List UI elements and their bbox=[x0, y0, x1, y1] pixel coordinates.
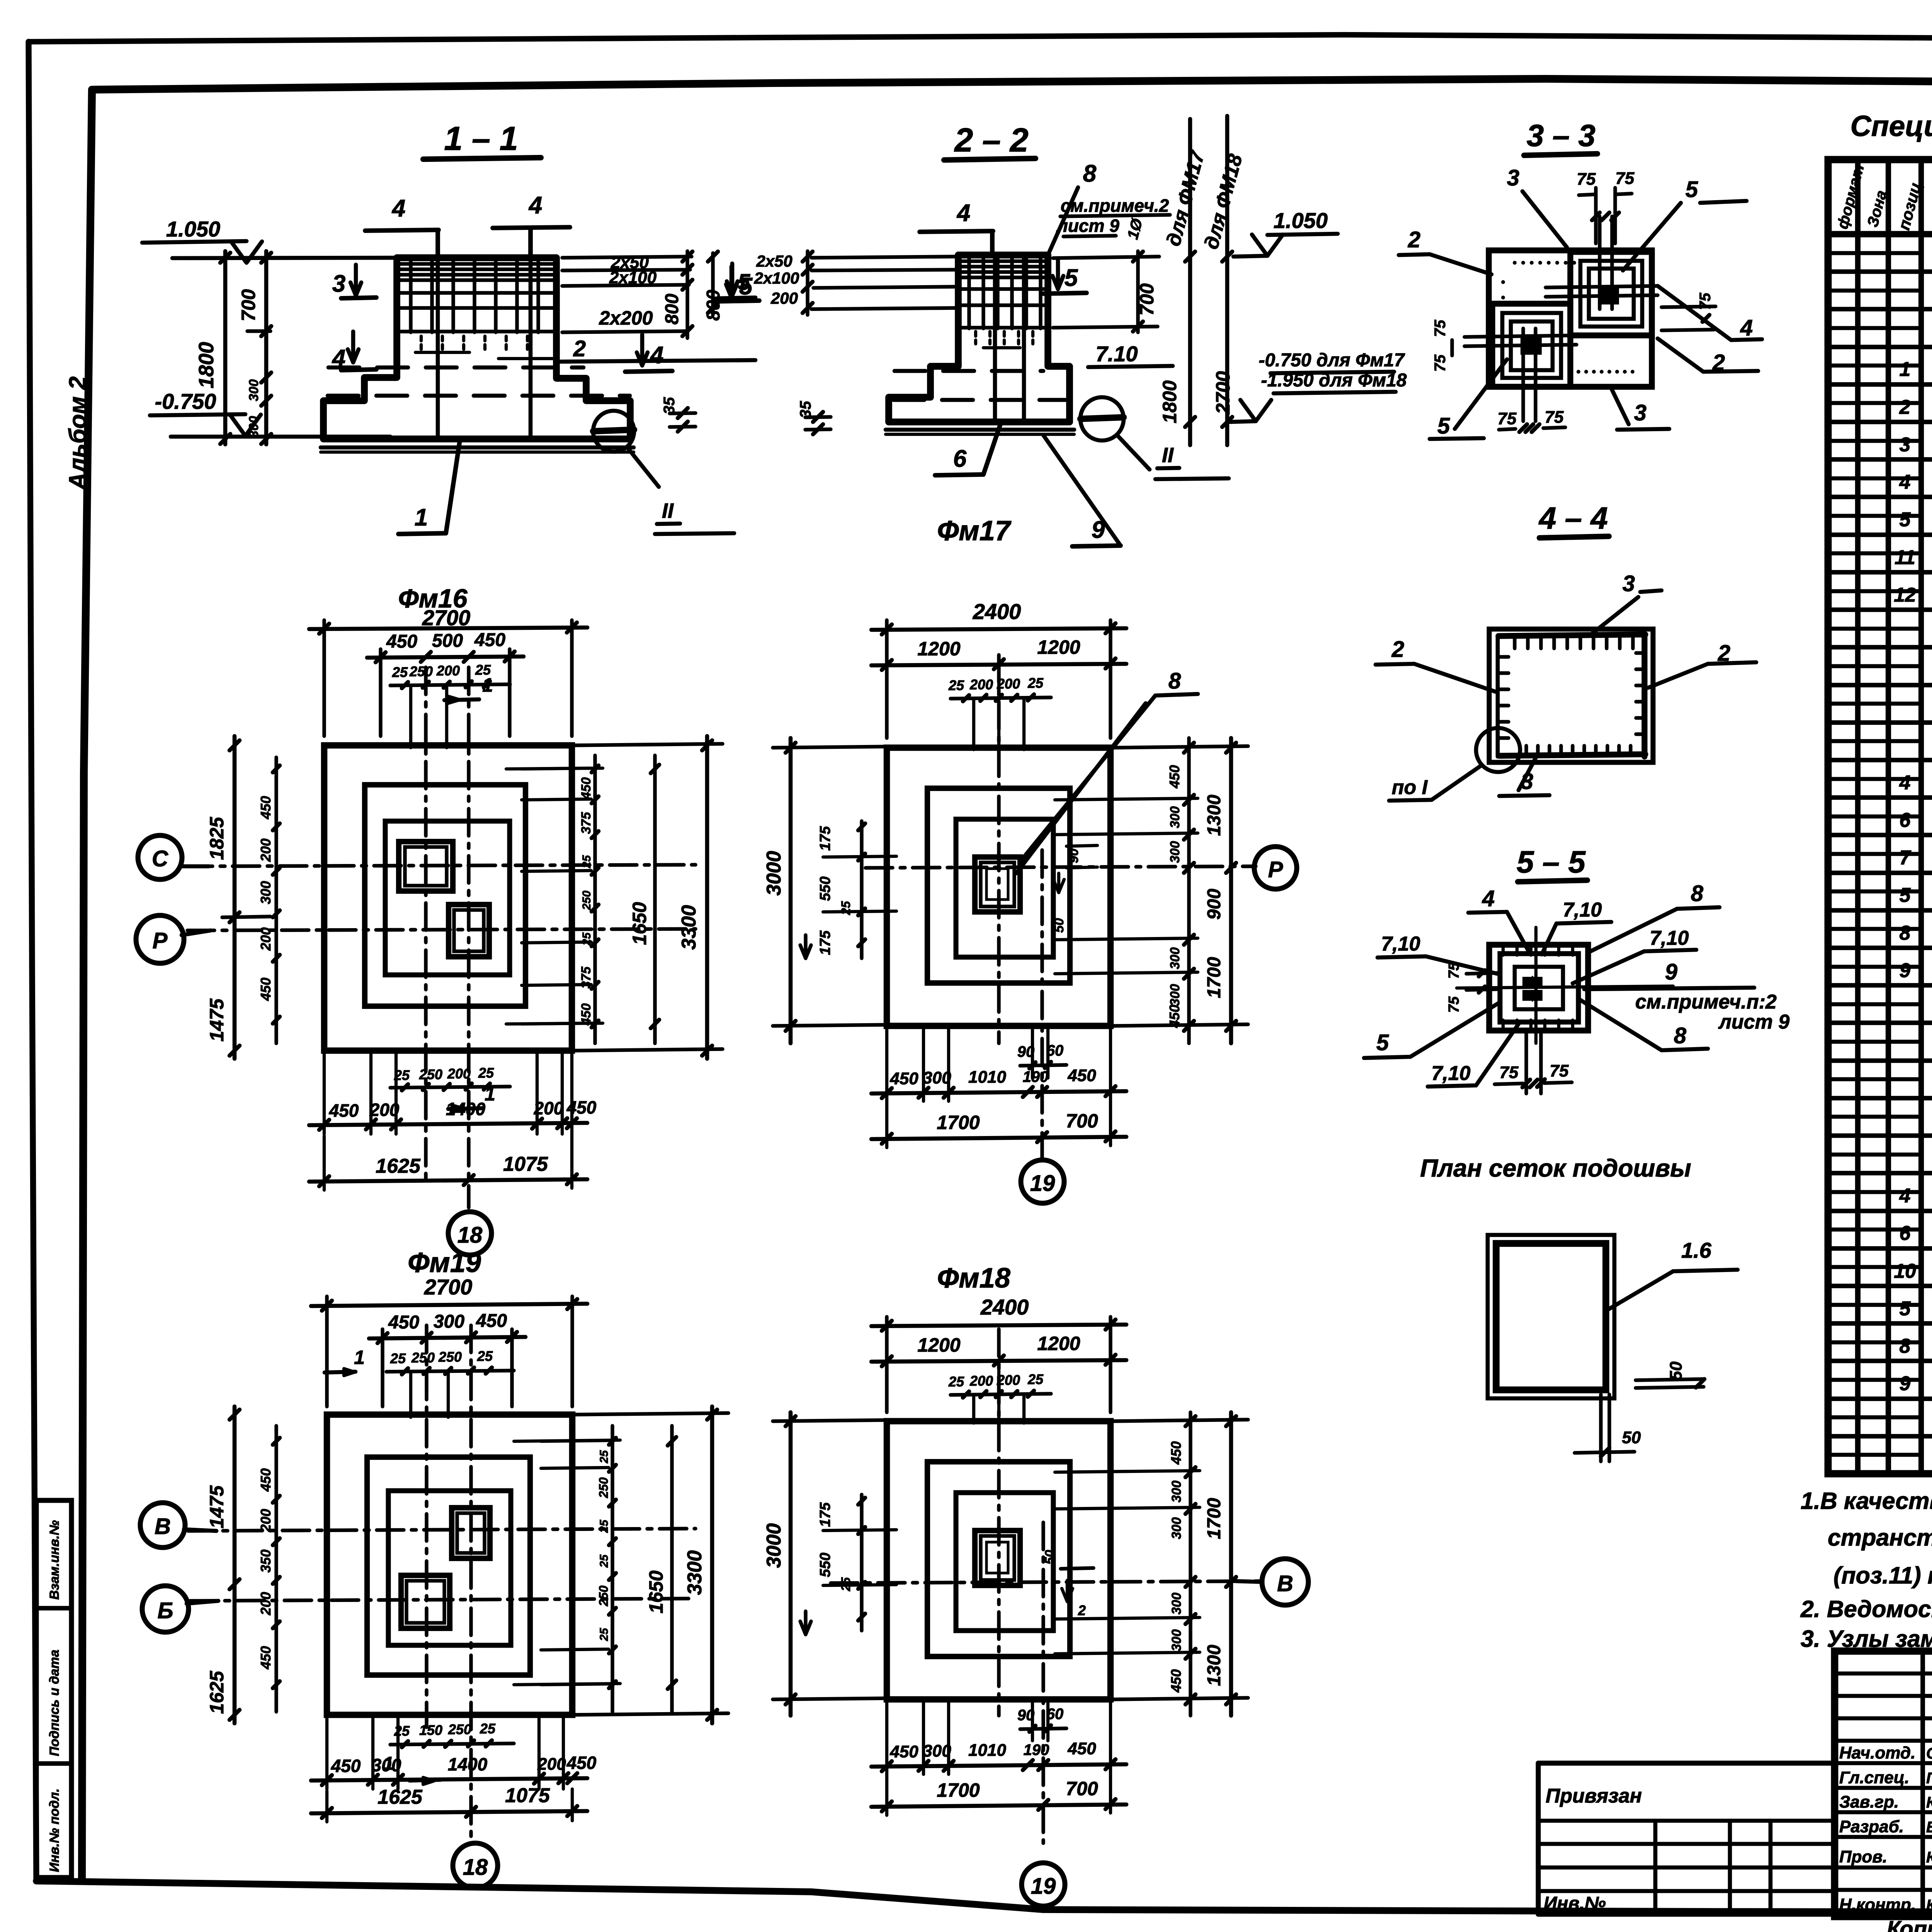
svg-text:300: 300 bbox=[1169, 1593, 1184, 1615]
svg-text:Фм18: Фм18 bbox=[937, 1263, 1010, 1294]
plan Фм18 upper step bbox=[956, 1493, 1053, 1631]
plan Фм18 right small dims bbox=[1189, 1412, 1192, 1716]
svg-text:450: 450 bbox=[258, 796, 274, 820]
svg-text:450: 450 bbox=[258, 1468, 274, 1492]
svg-text:1400: 1400 bbox=[448, 1754, 488, 1774]
plan Фм18 left small dims 175 550 bbox=[860, 1495, 863, 1631]
section 2-2 mesh horizontals bbox=[961, 259, 1046, 263]
section 1-1 hidden lines in base bbox=[328, 366, 583, 370]
svg-text:1: 1 bbox=[485, 1083, 495, 1105]
svg-text:35: 35 bbox=[661, 397, 678, 414]
plan Фм16 right dim 1650 bbox=[653, 755, 656, 1043]
plan Фм18 top dim 2400 bbox=[885, 1317, 888, 1412]
svg-text:4: 4 bbox=[332, 345, 345, 372]
svg-text:12: 12 bbox=[1894, 584, 1916, 606]
spec table header bottom bbox=[1828, 231, 1932, 238]
plan Фм19 left dim 1475 1625 bbox=[233, 1406, 237, 1723]
svg-text:25: 25 bbox=[948, 677, 964, 693]
plan Фм17 vertical axis bbox=[997, 655, 1000, 1043]
section 2-2 detail circle II bbox=[1080, 397, 1124, 440]
plan Фм16 right small dims bbox=[593, 755, 597, 1043]
svg-text:2700: 2700 bbox=[422, 605, 471, 630]
svg-text:10: 10 bbox=[1894, 1260, 1916, 1282]
section 3-3 top dim 75 75 bbox=[1594, 188, 1597, 243]
svg-text:1.В качестве соединительных: 1.В качестве соединительных элементов дл… bbox=[1801, 1488, 1932, 1514]
svg-text:1 – 1: 1 – 1 bbox=[444, 120, 518, 157]
section 3-3 outer plate bbox=[1489, 250, 1652, 387]
svg-text:4: 4 bbox=[650, 342, 663, 369]
plan Фм17 top dim 25 200 200 25 bbox=[951, 697, 1051, 699]
plan Фм16 horizontal axis P bbox=[187, 929, 696, 930]
svg-text:5: 5 bbox=[1900, 509, 1911, 531]
section 2-2 mesh verticals bbox=[967, 255, 971, 328]
svg-text:Фм19: Фм19 bbox=[408, 1247, 481, 1278]
svg-text:1010: 1010 bbox=[968, 1068, 1006, 1087]
svg-text:3: 3 bbox=[1900, 434, 1911, 456]
section 3-3 cross lines upper square bbox=[1546, 286, 1658, 287]
plan Фм16 right dim 3300 bbox=[705, 736, 709, 1059]
svg-text:1300: 1300 bbox=[1204, 1645, 1225, 1686]
axis circle Б left bbox=[142, 1586, 189, 1632]
section 1-1 right dim cluster 2x50 2x100 2x200 800 bbox=[562, 257, 692, 258]
section 5-5 left dim 75 75 bbox=[1466, 973, 1497, 974]
plan Фм17 top dim 1200 1200 bbox=[871, 664, 1126, 665]
spec table row lines bbox=[1828, 269, 1932, 274]
svg-text:250: 250 bbox=[597, 1585, 611, 1607]
svg-text:Р: Р bbox=[1268, 857, 1283, 882]
section 1-1 datum line top bbox=[172, 258, 398, 258]
svg-text:-0.750 для Фм17: -0.750 для Фм17 bbox=[1259, 350, 1405, 371]
svg-text:25: 25 bbox=[598, 1450, 611, 1464]
svg-text:2x200: 2x200 bbox=[599, 307, 653, 329]
section 2-2 dim 35 left bbox=[805, 417, 831, 417]
svg-text:25: 25 bbox=[1027, 1371, 1044, 1387]
svg-text:8: 8 bbox=[1900, 1335, 1911, 1357]
svg-text:25: 25 bbox=[598, 1628, 611, 1641]
plan Фм18 top dim 1200 1200 bbox=[871, 1360, 1126, 1362]
svg-text:1400: 1400 bbox=[446, 1099, 486, 1119]
plan Фм18 bottom dim 450 300 1010 190 450 bbox=[871, 1764, 1126, 1767]
svg-text:7: 7 bbox=[1900, 847, 1912, 869]
svg-text:300: 300 bbox=[1168, 947, 1182, 969]
section 4-4 tick marks bbox=[1513, 638, 1516, 648]
plan Фм18 outer slab bbox=[887, 1421, 1111, 1699]
svg-text:150: 150 bbox=[419, 1722, 442, 1738]
section 5-5 centerlines bbox=[1457, 986, 1673, 988]
svg-text:Привязан: Привязан bbox=[1546, 1785, 1642, 1807]
svg-text:50: 50 bbox=[1667, 1361, 1685, 1380]
svg-text:Гейдман: Гейдман bbox=[1926, 1770, 1932, 1787]
svg-text:1625: 1625 bbox=[376, 1155, 421, 1177]
svg-text:4: 4 bbox=[528, 192, 542, 219]
plan Фм19 outer slab bbox=[327, 1415, 572, 1715]
svg-text:7,10: 7,10 bbox=[1381, 933, 1420, 955]
svg-text:1700: 1700 bbox=[1204, 1498, 1225, 1539]
section 2-2 axis extension lines для Фм17 для Фм18 bbox=[1188, 119, 1192, 445]
svg-text:лист 9: лист 9 bbox=[1056, 216, 1119, 236]
svg-text:25: 25 bbox=[948, 1374, 964, 1389]
plan Фм17 left dim 3000 bbox=[789, 738, 793, 1043]
section 3-3 lower-left nested squares bbox=[1492, 304, 1570, 387]
svg-text:450: 450 bbox=[1067, 1739, 1096, 1758]
section 2-2 anchor bolts bbox=[993, 255, 997, 419]
svg-text:6: 6 bbox=[1900, 809, 1911, 832]
title block personnel columns bbox=[1920, 1651, 1925, 1917]
section 3-3 dotted marks top bbox=[1513, 261, 1517, 265]
svg-text:Зав.гр.: Зав.гр. bbox=[1839, 1793, 1899, 1811]
plan Фм17 axis 19 line bbox=[1040, 850, 1044, 1159]
svg-text:по I: по I bbox=[1392, 776, 1428, 799]
svg-text:3300: 3300 bbox=[678, 905, 700, 950]
axis circle B left bbox=[140, 1503, 185, 1548]
svg-text:1200: 1200 bbox=[917, 1334, 960, 1356]
axis circle C bbox=[138, 835, 182, 879]
outer border left bbox=[29, 42, 36, 1881]
svg-text:странственных каркасов испол: странственных каркасов использовать ММ2 … bbox=[1828, 1524, 1932, 1551]
svg-text:700: 700 bbox=[1066, 1110, 1098, 1132]
section 1-1 foundation outline bbox=[397, 254, 556, 261]
svg-text:1475: 1475 bbox=[206, 1485, 228, 1528]
svg-text:Подпись и дата: Подпись и дата bbox=[47, 1650, 62, 1756]
svg-text:300: 300 bbox=[1168, 841, 1182, 863]
svg-text:Величко: Величко bbox=[1926, 1819, 1932, 1836]
svg-text:4: 4 bbox=[1740, 315, 1753, 340]
plan Фм19 top dim 2700 bbox=[325, 1296, 328, 1406]
plan Фм17 horizontal axis P bbox=[866, 866, 1256, 868]
svg-text:Р: Р bbox=[153, 928, 168, 953]
svg-text:18: 18 bbox=[463, 1855, 488, 1880]
plan Фм16 vertical axes bbox=[424, 667, 427, 1182]
plan Фм18 anchor plate bbox=[975, 1531, 1020, 1585]
svg-text:9: 9 bbox=[1900, 959, 1911, 982]
section 1-1 detail circle II bbox=[593, 411, 634, 452]
section 1-1 left dim line 700/300 bbox=[264, 251, 269, 444]
svg-text:300: 300 bbox=[258, 881, 274, 904]
svg-text:200: 200 bbox=[997, 1372, 1020, 1388]
svg-text:75: 75 bbox=[1446, 996, 1462, 1013]
svg-text:250: 250 bbox=[438, 1349, 462, 1365]
svg-text:300: 300 bbox=[1169, 1517, 1184, 1539]
svg-text:75: 75 bbox=[1432, 354, 1449, 372]
svg-text:75: 75 bbox=[1616, 169, 1634, 188]
svg-text:450: 450 bbox=[1168, 1441, 1184, 1465]
privyazan sub-table bbox=[1536, 1763, 1541, 1914]
svg-text:1.050: 1.050 bbox=[1274, 208, 1328, 233]
svg-text:8: 8 bbox=[1168, 668, 1181, 694]
svg-text:2. Ведомость расхода стали на: 2. Ведомость расхода стали на элемент см… bbox=[1800, 1596, 1932, 1622]
svg-text:200: 200 bbox=[969, 1373, 993, 1389]
svg-text:В: В bbox=[1277, 1571, 1293, 1596]
svg-text:25: 25 bbox=[394, 1723, 410, 1739]
section 1-1 anchor bolts bbox=[436, 258, 440, 437]
sole mesh plan rectangle bbox=[1488, 1235, 1614, 1398]
section 1-1 dim 35 bbox=[670, 413, 696, 413]
plan Фм18 right dim 1700 1300 bbox=[1229, 1412, 1233, 1716]
section 3-3 bottom dim 75 75 bbox=[1499, 429, 1515, 430]
svg-text:50: 50 bbox=[1052, 918, 1066, 933]
svg-text:-0.750: -0.750 bbox=[155, 389, 216, 413]
svg-text:3: 3 bbox=[1622, 571, 1635, 596]
svg-text:4: 4 bbox=[956, 200, 970, 226]
svg-text:7,10: 7,10 bbox=[1650, 927, 1689, 949]
svg-text:4: 4 bbox=[1899, 1185, 1911, 1207]
section 3-3 cross lines lower square bbox=[1464, 335, 1577, 337]
svg-text:25: 25 bbox=[477, 1348, 493, 1364]
plan Фм16 anchor plate B bbox=[449, 905, 489, 957]
main frame bottom bbox=[36, 1881, 1932, 1913]
section 2-2 hidden lines bbox=[895, 369, 1043, 373]
section 1-1 datum line bottom bbox=[171, 435, 390, 439]
svg-text:25: 25 bbox=[390, 1350, 406, 1366]
plan Фм17 bottom dim 1700 700 bbox=[871, 1137, 1126, 1139]
svg-text:II: II bbox=[662, 499, 674, 522]
svg-text:2: 2 bbox=[1078, 1602, 1086, 1618]
svg-text:II: II bbox=[1162, 444, 1174, 467]
plan Фм19 anchor plate TR bbox=[452, 1508, 490, 1558]
svg-text:3: 3 bbox=[332, 270, 345, 297]
svg-text:75: 75 bbox=[1545, 408, 1564, 427]
svg-text:9: 9 bbox=[1665, 959, 1677, 985]
svg-text:50: 50 bbox=[1043, 1550, 1057, 1565]
svg-text:3: 3 bbox=[1634, 400, 1646, 425]
plan Фм18 left dim 3000 bbox=[789, 1412, 793, 1716]
svg-text:175: 175 bbox=[817, 1502, 833, 1527]
axis circle P right bbox=[1254, 847, 1297, 889]
svg-text:Юхтовская: Юхтовская bbox=[1926, 1849, 1932, 1866]
svg-text:1200: 1200 bbox=[917, 638, 960, 660]
svg-text:75: 75 bbox=[1550, 1061, 1569, 1080]
svg-text:1.6: 1.6 bbox=[1681, 1238, 1712, 1262]
svg-text:4: 4 bbox=[1899, 471, 1911, 493]
svg-text:2: 2 bbox=[1899, 396, 1911, 418]
svg-text:300: 300 bbox=[434, 1311, 464, 1332]
svg-text:11: 11 bbox=[1895, 546, 1915, 569]
plan Фм18 horizontal axis B bbox=[831, 1581, 1260, 1583]
svg-text:700: 700 bbox=[1136, 283, 1158, 316]
plan Фм17 upper step bbox=[956, 819, 1053, 957]
svg-text:450: 450 bbox=[566, 1753, 597, 1773]
svg-text:19: 19 bbox=[1031, 1874, 1056, 1899]
plan Фм16 bottom dim 1625 1075 bbox=[309, 1179, 587, 1182]
svg-text:Б: Б bbox=[157, 1598, 173, 1623]
plan Фм19 vertical axes bbox=[425, 1325, 428, 1727]
svg-text:-1.950 для Фм18: -1.950 для Фм18 bbox=[1261, 370, 1407, 391]
plan Фм19 right small dims bbox=[611, 1426, 614, 1712]
svg-text:700: 700 bbox=[1066, 1778, 1098, 1799]
svg-text:1.050: 1.050 bbox=[166, 217, 220, 241]
svg-text:6: 6 bbox=[953, 446, 967, 472]
svg-text:2: 2 bbox=[1408, 227, 1420, 252]
svg-text:В: В bbox=[155, 1514, 171, 1539]
section 5-5 nested squares bbox=[1489, 945, 1588, 1031]
svg-text:175: 175 bbox=[817, 826, 833, 850]
plan Фм16 top dim 450 500 450 bbox=[379, 649, 382, 736]
svg-text:План сеток подошвы: План сеток подошвы bbox=[1420, 1154, 1691, 1182]
svg-text:2x100: 2x100 bbox=[754, 269, 799, 287]
svg-text:200: 200 bbox=[447, 1066, 471, 1082]
svg-text:200: 200 bbox=[997, 676, 1020, 692]
svg-text:190: 190 bbox=[1024, 1742, 1049, 1759]
left margin stamp boxes bbox=[36, 1500, 71, 1878]
svg-text:3300: 3300 bbox=[684, 1550, 706, 1595]
svg-text:350: 350 bbox=[258, 1549, 274, 1573]
svg-text:(поз.11) по серии 1.412.1-4.0: (поз.11) по серии 1.412.1-4.070, 1.412.1… bbox=[1833, 1562, 1932, 1588]
svg-text:50: 50 bbox=[1622, 1428, 1641, 1447]
svg-text:4: 4 bbox=[391, 195, 405, 222]
plan Фм16 bottom dims bbox=[390, 1087, 510, 1088]
svg-text:19: 19 bbox=[1030, 1171, 1055, 1196]
plan Фм16 outer slab bbox=[324, 745, 572, 1051]
svg-text:35: 35 bbox=[797, 401, 814, 418]
svg-text:Фм17: Фм17 bbox=[937, 515, 1012, 546]
plan Фм17 left small dims 175 550 25 175 bbox=[860, 821, 863, 958]
svg-text:175: 175 bbox=[817, 930, 833, 955]
svg-text:Спецификация элементов фунда: Спецификация элементов фундаментов Фм16÷… bbox=[1850, 110, 1932, 142]
svg-text:5: 5 bbox=[738, 270, 750, 295]
section 2-2 foundation outline bbox=[958, 252, 1048, 259]
svg-text:Н.контр.: Н.контр. bbox=[1839, 1895, 1916, 1914]
svg-text:1800: 1800 bbox=[195, 342, 218, 388]
plan Фм16 top dim 25 250 200 25 bbox=[390, 684, 510, 685]
plan Фм16 left dim small column bbox=[274, 757, 278, 1043]
svg-text:1: 1 bbox=[354, 1347, 365, 1368]
plan Фм19 horizontal axis Б bbox=[190, 1599, 696, 1601]
plan Фм18 vertical axis bbox=[997, 1329, 1000, 1716]
section 4-4 mesh plate bbox=[1489, 629, 1653, 762]
section 1-1 reinforcement mesh horizontals bbox=[400, 262, 554, 265]
svg-text:Взам.инв.№: Взам.инв.№ bbox=[47, 1520, 62, 1600]
svg-text:8: 8 bbox=[1674, 1023, 1687, 1048]
plan Фм18 top dim 25 200 200 25 bbox=[951, 1394, 1051, 1395]
axis circle B right bbox=[1262, 1559, 1308, 1605]
svg-text:450: 450 bbox=[331, 1756, 361, 1776]
section 2-2 underlay line bbox=[886, 428, 1074, 432]
section 1-1 underlay line bbox=[321, 446, 634, 450]
svg-text:2: 2 bbox=[1391, 637, 1404, 662]
svg-text:200: 200 bbox=[770, 289, 798, 307]
svg-text:250: 250 bbox=[409, 663, 433, 679]
plan Фм18 axis 19 line bbox=[1041, 1522, 1045, 1843]
plan Фм19 upper step bbox=[388, 1491, 511, 1645]
plan Фм16 horizontal axis C bbox=[185, 865, 696, 866]
plan Фм19 bottom dim 1625 1075 bbox=[311, 1811, 587, 1813]
svg-text:200: 200 bbox=[436, 663, 460, 679]
svg-text:Разраб.: Разраб. bbox=[1839, 1817, 1904, 1836]
svg-text:5: 5 bbox=[1065, 265, 1078, 291]
svg-text:1650: 1650 bbox=[645, 1570, 667, 1613]
section 3-3 upper-right nested squares bbox=[1570, 252, 1652, 335]
svg-text:1075: 1075 bbox=[503, 1153, 548, 1175]
svg-text:2400: 2400 bbox=[980, 1295, 1029, 1319]
section 2-2 right dim 700 bbox=[1053, 257, 1159, 258]
svg-text:450: 450 bbox=[474, 630, 505, 650]
svg-text:Альбом 2: Альбом 2 bbox=[65, 376, 91, 491]
svg-text:Котенко: Котенко bbox=[1926, 1897, 1932, 1914]
svg-text:700: 700 bbox=[238, 289, 259, 321]
svg-text:90: 90 bbox=[1066, 849, 1081, 863]
svg-text:5: 5 bbox=[1685, 177, 1698, 202]
title block personnel rows bbox=[1835, 1672, 1932, 1676]
svg-text:18: 18 bbox=[457, 1223, 483, 1248]
svg-text:1200: 1200 bbox=[1037, 1333, 1080, 1354]
svg-text:200: 200 bbox=[969, 677, 993, 692]
section 3-3 right dim 75 bbox=[1662, 306, 1716, 307]
section 2-2 mesh hooks bbox=[974, 332, 977, 344]
axis circle P bbox=[136, 915, 184, 963]
svg-text:200: 200 bbox=[258, 838, 274, 862]
svg-text:8: 8 bbox=[1083, 160, 1097, 187]
svg-text:75: 75 bbox=[1697, 293, 1714, 310]
svg-text:25: 25 bbox=[480, 1721, 496, 1736]
svg-text:250: 250 bbox=[419, 1066, 442, 1082]
axis circle 18 under plan Фм19 bbox=[453, 1843, 498, 1888]
svg-text:450: 450 bbox=[388, 1312, 419, 1333]
svg-text:75: 75 bbox=[1498, 409, 1517, 428]
svg-text:300: 300 bbox=[1168, 806, 1182, 828]
svg-text:см.примеч.п:2: см.примеч.п:2 bbox=[1635, 991, 1777, 1013]
svg-text:1700: 1700 bbox=[937, 1112, 980, 1133]
svg-text:2700: 2700 bbox=[1212, 371, 1234, 414]
svg-text:75: 75 bbox=[1432, 320, 1449, 337]
svg-text:25: 25 bbox=[598, 1519, 611, 1533]
plan Фм19 left small dims bbox=[274, 1426, 278, 1712]
main frame left bbox=[82, 90, 92, 1881]
plan Фм19 middle step bbox=[367, 1457, 530, 1675]
svg-text:5: 5 bbox=[1437, 413, 1450, 439]
svg-text:1700: 1700 bbox=[937, 1779, 980, 1801]
svg-text:3000: 3000 bbox=[763, 1523, 785, 1568]
plan Фм19 bottom dim 450 300 1400 200 450 bbox=[311, 1778, 587, 1781]
plan Фм16 anchor plate A bbox=[399, 842, 453, 891]
svg-text:8: 8 bbox=[1691, 881, 1704, 906]
svg-text:1: 1 bbox=[415, 504, 428, 531]
svg-text:4: 4 bbox=[1899, 772, 1911, 794]
svg-text:1625: 1625 bbox=[206, 1670, 228, 1714]
plan Фм16 upper step bbox=[385, 821, 510, 975]
svg-text:1825: 1825 bbox=[206, 816, 228, 860]
svg-text:200: 200 bbox=[258, 1509, 274, 1532]
plan Фм19 horizontal axis B bbox=[188, 1529, 696, 1531]
svg-text:200: 200 bbox=[258, 927, 274, 951]
svg-text:4: 4 bbox=[1482, 886, 1495, 911]
svg-text:1075: 1075 bbox=[505, 1784, 550, 1807]
svg-text:С: С bbox=[152, 846, 168, 871]
svg-text:1800: 1800 bbox=[1159, 380, 1180, 423]
svg-text:9: 9 bbox=[1900, 1372, 1911, 1395]
svg-text:450: 450 bbox=[1067, 1066, 1096, 1085]
svg-text:450: 450 bbox=[476, 1311, 507, 1331]
plan Фм17 bottom dim 450 300 1010 190 450 bbox=[871, 1091, 1126, 1094]
svg-text:550: 550 bbox=[817, 876, 833, 901]
plan Фм16 middle step bbox=[365, 785, 526, 1006]
main frame top bbox=[92, 79, 1932, 93]
svg-text:500: 500 bbox=[432, 631, 463, 651]
svg-text:250: 250 bbox=[597, 1477, 611, 1498]
plan Фм17 top dim 2400 bbox=[885, 620, 888, 738]
axis circle 19 under plan Фм18 bbox=[1022, 1863, 1065, 1906]
plan Фм17 right dim 1300 900 1700 bbox=[1229, 738, 1233, 1043]
svg-text:1300: 1300 bbox=[1204, 794, 1225, 836]
svg-text:7,10: 7,10 bbox=[1431, 1062, 1470, 1085]
svg-text:5: 5 bbox=[1900, 884, 1911, 906]
svg-text:7.10: 7.10 bbox=[1096, 342, 1138, 366]
svg-text:450: 450 bbox=[889, 1742, 918, 1761]
svg-text:Инв.№ подл.: Инв.№ подл. bbox=[47, 1788, 62, 1872]
svg-text:250: 250 bbox=[448, 1721, 471, 1737]
plan Фм16 left dim 1825 1475 bbox=[233, 736, 237, 1059]
section 5-5 inner tick marks bbox=[1502, 947, 1505, 955]
svg-text:25: 25 bbox=[580, 855, 593, 869]
